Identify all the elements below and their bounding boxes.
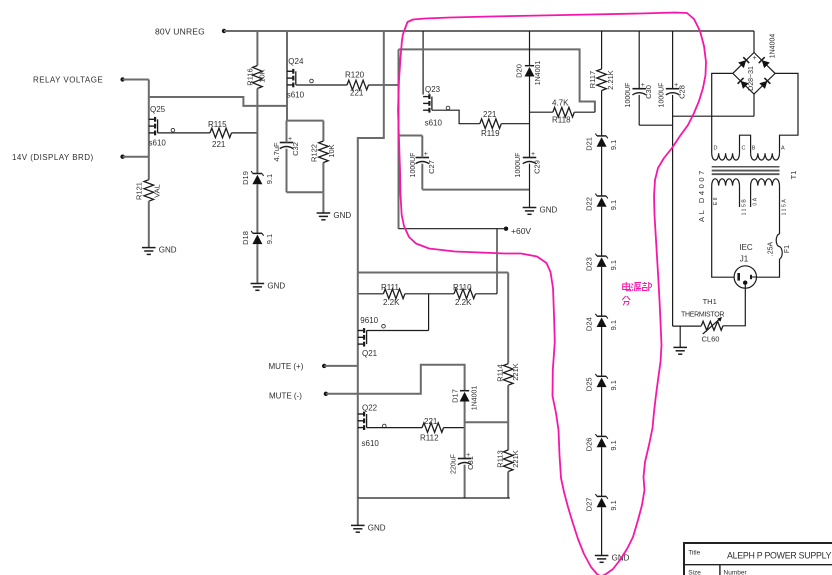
svg-text:221: 221 bbox=[424, 417, 438, 426]
svg-text:9.1: 9.1 bbox=[609, 140, 618, 150]
svg-text:GND: GND bbox=[540, 206, 558, 215]
svg-text:C28: C28 bbox=[678, 85, 687, 99]
node MUTE plus terminal bbox=[269, 362, 327, 371]
wire R116 to D19 bbox=[256, 89, 258, 174]
wire D19 to D18 bbox=[256, 184, 258, 233]
svg-text:MUTE (+): MUTE (+) bbox=[269, 362, 304, 371]
svg-text:+: + bbox=[424, 151, 428, 158]
transistor Q24 bbox=[287, 57, 314, 100]
connector J1 IEC inlet bbox=[734, 243, 756, 288]
diode D17 1N4001 bbox=[451, 386, 479, 411]
wire mute bus bbox=[358, 272, 508, 274]
svg-text:s610: s610 bbox=[287, 91, 305, 100]
svg-text:R112: R112 bbox=[420, 434, 439, 443]
diode D24 9.1 bbox=[585, 314, 619, 331]
wire R117 to D21 bbox=[601, 91, 603, 136]
svg-text:9.1: 9.1 bbox=[609, 320, 618, 330]
svg-text:C31: C31 bbox=[466, 456, 475, 470]
diode D25 9.1 bbox=[585, 374, 619, 391]
transistor Q22 bbox=[358, 404, 386, 449]
svg-text:C29: C29 bbox=[533, 160, 542, 174]
svg-text:GND: GND bbox=[333, 211, 351, 220]
transistor Q21 bbox=[358, 316, 386, 358]
svg-text:R115: R115 bbox=[208, 120, 227, 129]
wire bridge right to transformer A bbox=[775, 73, 798, 153]
svg-text:9.1: 9.1 bbox=[609, 500, 618, 510]
wire bridge left to transformer D bbox=[712, 73, 733, 153]
ground below D18 bbox=[251, 282, 286, 291]
wire R121 to ground bbox=[148, 201, 150, 247]
svg-text:T1: T1 bbox=[789, 171, 798, 180]
svg-text:D25: D25 bbox=[585, 377, 594, 391]
svg-text:R120: R120 bbox=[345, 71, 365, 80]
wire D20 C29 rail bbox=[529, 31, 531, 158]
wire mute minus to D17 bbox=[326, 365, 465, 394]
resistor R119 221 bbox=[480, 110, 502, 138]
svg-text:C32: C32 bbox=[291, 142, 300, 156]
resistor R122 10K bbox=[310, 141, 337, 163]
wire D21 to D22 bbox=[601, 147, 603, 196]
svg-text:221K: 221K bbox=[511, 450, 520, 468]
svg-text:0A: 0A bbox=[753, 196, 759, 205]
svg-text:AL D4007: AL D4007 bbox=[697, 168, 706, 222]
svg-text:D28~31: D28~31 bbox=[748, 66, 755, 91]
wire R111 R110 junction down to Q21 bbox=[428, 294, 430, 331]
diode D22 9.1 bbox=[585, 194, 619, 211]
svg-text:D24: D24 bbox=[585, 317, 594, 331]
capacitor C31 220uF bbox=[451, 452, 476, 474]
resistor R121 VAL bbox=[135, 180, 162, 202]
resistor R111 2.2K bbox=[381, 283, 405, 307]
thermistor TH1 CL60 bbox=[681, 297, 724, 344]
svg-text:9.1: 9.1 bbox=[265, 234, 274, 244]
diode D23 9.1 bbox=[585, 254, 619, 271]
wire R114 rail bbox=[507, 273, 509, 364]
rectifier bridge D28-31 1N4004 bbox=[733, 34, 777, 94]
svg-text:14V (DISPLAY BRD): 14V (DISPLAY BRD) bbox=[12, 153, 94, 162]
title block bbox=[684, 543, 832, 575]
wire R112 to D17 rail bbox=[444, 427, 465, 429]
resistor R120 221 bbox=[345, 71, 369, 98]
svg-text:1N4001: 1N4001 bbox=[472, 386, 479, 411]
wire +60V line bbox=[399, 228, 507, 230]
svg-text:D18: D18 bbox=[241, 231, 250, 245]
ground bottom left bbox=[351, 523, 386, 532]
diode D26 9.1 bbox=[585, 434, 619, 451]
svg-text:4.7uF: 4.7uF bbox=[272, 142, 281, 162]
wire R118 leads bbox=[530, 111, 595, 113]
wire bottom bus bbox=[358, 497, 510, 499]
resistor R110 2.2K bbox=[453, 283, 476, 307]
wire Q25 source to R115 bbox=[158, 132, 210, 134]
capacitor C29 1000UF bbox=[515, 151, 542, 177]
wire C30 to C28 connector bbox=[639, 124, 672, 126]
resistor R118 4.7K bbox=[552, 99, 574, 125]
svg-text:1000UF: 1000UF bbox=[659, 83, 666, 108]
wire C30 rail bbox=[638, 31, 640, 125]
svg-text:MUTE (-): MUTE (-) bbox=[269, 392, 302, 401]
svg-text:115A: 115A bbox=[782, 198, 788, 216]
node RELAY VOLTAGE terminal bbox=[33, 76, 125, 85]
wire rail from bus to mute section bbox=[358, 31, 384, 273]
wire bottom bus to ground bbox=[357, 498, 359, 525]
transformer labels bbox=[697, 168, 798, 222]
svg-text:+: + bbox=[288, 136, 292, 143]
wire D23 to D24 bbox=[601, 267, 603, 316]
wire box to ground bbox=[322, 192, 324, 213]
wire +60V to R110 bbox=[496, 229, 498, 294]
diode D18 9.1 bbox=[241, 231, 274, 245]
wire transformer C B tie bbox=[740, 135, 751, 153]
wire R119 to C29 rail bbox=[501, 123, 529, 125]
svg-text:1000UF: 1000UF bbox=[515, 153, 522, 178]
wire Q25 gate line bbox=[149, 97, 287, 106]
svg-text:Q25: Q25 bbox=[150, 105, 166, 114]
svg-text:s610: s610 bbox=[149, 139, 167, 148]
diode D27 9.1 bbox=[585, 494, 619, 511]
svg-text:TH1: TH1 bbox=[703, 297, 717, 306]
svg-text:2.2K: 2.2K bbox=[455, 298, 472, 307]
svg-text:IEC: IEC bbox=[739, 243, 753, 252]
svg-text:C30: C30 bbox=[644, 85, 653, 99]
wire R114 to junction bbox=[507, 385, 509, 450]
svg-text:D22: D22 bbox=[585, 197, 594, 211]
svg-text:9610: 9610 bbox=[360, 316, 378, 325]
svg-text:221: 221 bbox=[483, 110, 497, 119]
wire gate drive line from R120 to R118 bbox=[399, 49, 595, 112]
svg-text:Title: Title bbox=[688, 550, 700, 557]
wire ground stem mains bbox=[679, 326, 681, 347]
svg-text:R121: R121 bbox=[135, 182, 144, 200]
svg-text:Size: Size bbox=[688, 570, 701, 575]
wire transformer to IEC left bbox=[712, 186, 734, 278]
transformer T1 core bbox=[712, 167, 780, 174]
annotation chinese text power supply section bbox=[622, 282, 652, 305]
wire +60V rail bbox=[398, 49, 400, 228]
svg-text:R116: R116 bbox=[246, 68, 255, 85]
svg-text:R118: R118 bbox=[552, 116, 571, 125]
node +60V bbox=[504, 226, 532, 236]
svg-text:R113: R113 bbox=[496, 450, 505, 467]
wire C31 to bottom bus bbox=[464, 465, 466, 498]
wire R111 R110 row bbox=[358, 293, 497, 295]
wire relay voltage to Q25 rail bbox=[123, 79, 149, 81]
svg-text:THERMISTOR: THERMISTOR bbox=[681, 311, 724, 318]
svg-text:R110: R110 bbox=[453, 283, 472, 292]
wire D17 junction to R114 rail bbox=[465, 421, 509, 423]
wire R113 to bottom bus bbox=[507, 472, 509, 499]
svg-text:D26: D26 bbox=[585, 438, 594, 452]
wire R116 rail top bbox=[256, 31, 258, 66]
node 14V DISPLAY BRD terminal bbox=[12, 153, 125, 162]
wire C29 to ground bbox=[529, 164, 531, 208]
wire fuse to IEC right bbox=[757, 259, 780, 277]
wire D26 to D27 bbox=[601, 447, 603, 496]
ground below zener chain bbox=[595, 554, 630, 563]
wire D27 to ground bbox=[601, 507, 603, 555]
svg-text:1000UF: 1000UF bbox=[410, 153, 417, 178]
svg-text:R122: R122 bbox=[310, 144, 319, 162]
diode D21 9.1 bbox=[585, 134, 619, 151]
wire Q22 source to R112 bbox=[367, 427, 423, 429]
wire R117 rail bbox=[601, 31, 603, 69]
wire D17 rail down bbox=[464, 402, 466, 459]
wire C28 rail to thermistor bbox=[673, 325, 702, 327]
wire Q24 rail bbox=[286, 31, 288, 121]
resistor R112 221 bbox=[420, 417, 444, 443]
svg-text:ALEPH P POWER SUPPLY: ALEPH P POWER SUPPLY bbox=[727, 551, 832, 561]
capacitor C30 1000UF bbox=[625, 82, 653, 107]
capacitor C32 4.7uF bbox=[272, 136, 300, 162]
node 80V UNREG terminal bbox=[155, 27, 226, 37]
svg-text:R114: R114 bbox=[496, 364, 505, 381]
wire Q23 source to R119 bbox=[432, 110, 480, 124]
svg-text:4.7K: 4.7K bbox=[552, 99, 569, 108]
svg-text:221K: 221K bbox=[511, 363, 520, 381]
svg-text:+: + bbox=[752, 55, 756, 62]
svg-text:115B: 115B bbox=[742, 198, 748, 216]
svg-text:9.1: 9.1 bbox=[265, 174, 274, 184]
svg-text:D23: D23 bbox=[585, 257, 594, 271]
svg-text:Q22: Q22 bbox=[362, 404, 378, 413]
svg-text:9.1: 9.1 bbox=[609, 440, 618, 450]
svg-text:10K: 10K bbox=[258, 69, 267, 82]
svg-text:C27: C27 bbox=[427, 160, 436, 174]
wire D18 to ground bbox=[256, 244, 258, 283]
svg-text:2.2K: 2.2K bbox=[383, 298, 400, 307]
fuse F1 .25A bbox=[768, 234, 792, 259]
svg-text:D17: D17 bbox=[451, 389, 460, 403]
wire C27 rail bbox=[421, 136, 423, 190]
svg-text:R111: R111 bbox=[381, 283, 399, 292]
capacitor C27 1000UF bbox=[410, 151, 436, 177]
diode D20 1N4001 bbox=[515, 61, 543, 86]
wire D25 to D26 bbox=[601, 387, 603, 436]
wire transformer stubs bbox=[740, 186, 751, 207]
svg-text:GND: GND bbox=[368, 523, 386, 532]
svg-text:1N4001: 1N4001 bbox=[535, 61, 542, 86]
svg-text:80V UNREG: 80V UNREG bbox=[155, 27, 205, 37]
wire left rail Q21 Q22 bbox=[357, 273, 359, 499]
ground below R122 bbox=[317, 211, 352, 220]
transistor Q25 bbox=[149, 105, 175, 148]
svg-text:Q23: Q23 bbox=[425, 85, 441, 94]
svg-text:D27: D27 bbox=[585, 498, 594, 512]
svg-text:Q24: Q24 bbox=[288, 57, 304, 66]
wire R120 to gate node bbox=[369, 84, 399, 86]
svg-text:10K: 10K bbox=[327, 144, 336, 157]
svg-text:CL60: CL60 bbox=[702, 335, 720, 344]
svg-text:B: B bbox=[752, 146, 756, 152]
svg-text:D19: D19 bbox=[241, 171, 250, 185]
svg-text:R117: R117 bbox=[588, 71, 597, 88]
svg-text:9.1: 9.1 bbox=[609, 380, 618, 390]
ground mains side bbox=[673, 347, 687, 354]
svg-text:R119: R119 bbox=[481, 129, 500, 138]
svg-text:9.1: 9.1 bbox=[609, 200, 618, 210]
svg-text:1000UF: 1000UF bbox=[625, 83, 632, 108]
ground below R121 bbox=[142, 246, 177, 255]
svg-text:221: 221 bbox=[212, 140, 226, 149]
diode D19 9.1 bbox=[241, 171, 274, 185]
svg-text:+: + bbox=[531, 151, 535, 158]
svg-text:D20: D20 bbox=[515, 64, 524, 78]
svg-text:VAL: VAL bbox=[153, 184, 162, 198]
transformer T1 secondary windings bbox=[712, 179, 788, 216]
svg-text:+60V: +60V bbox=[511, 226, 531, 236]
wire regulator box bottom bbox=[422, 189, 529, 191]
wire bus to bridge top bbox=[753, 31, 755, 53]
wire Q23 drain rail bbox=[422, 31, 424, 95]
wire transformer to fuse bbox=[779, 186, 781, 234]
svg-text:1N4004: 1N4004 bbox=[770, 34, 777, 59]
svg-text:J1: J1 bbox=[740, 255, 749, 264]
wire Q21 source to junction bbox=[367, 330, 429, 332]
wire Q24 source to R120 bbox=[296, 84, 347, 86]
resistor R117 2.21K bbox=[588, 69, 615, 91]
svg-text:D21: D21 bbox=[585, 137, 594, 151]
capacitor C28 1000UF bbox=[659, 82, 687, 107]
wire bridge bottom to minus line bbox=[753, 94, 755, 116]
svg-text:Q21: Q21 bbox=[362, 349, 378, 358]
ground below C29 bbox=[523, 206, 558, 215]
svg-text:D: D bbox=[714, 146, 718, 152]
svg-text:9.1: 9.1 bbox=[609, 260, 618, 270]
wire 14V to Q25 rail bbox=[123, 156, 149, 158]
svg-text:Number: Number bbox=[724, 570, 748, 575]
svg-text:220uF: 220uF bbox=[451, 454, 458, 474]
wire bridge minus line bbox=[673, 115, 754, 117]
wire C32 R122 box bbox=[287, 121, 324, 193]
svg-text:A: A bbox=[781, 146, 785, 152]
resistor R113 221K bbox=[496, 450, 521, 472]
svg-text:GND: GND bbox=[267, 282, 285, 291]
svg-text:F1: F1 bbox=[784, 245, 791, 253]
svg-text:221: 221 bbox=[350, 89, 364, 98]
annotation pink highlight loop bbox=[398, 13, 706, 575]
wire R115 to R116 rail bbox=[232, 132, 258, 134]
node MUTE minus terminal bbox=[269, 392, 328, 401]
wire 80V UNREG top bus bbox=[224, 30, 754, 32]
svg-text:C: C bbox=[742, 146, 746, 152]
resistor R115 221 bbox=[208, 120, 232, 149]
transistor Q23 bbox=[423, 85, 450, 128]
svg-text:RELAY VOLTAGE: RELAY VOLTAGE bbox=[33, 76, 103, 85]
svg-text:E8: E8 bbox=[713, 196, 719, 205]
resistor R114 221K bbox=[496, 363, 521, 385]
wire IEC ground pin down bbox=[723, 285, 745, 326]
wire D24 to D25 bbox=[601, 327, 603, 376]
svg-text:s610: s610 bbox=[425, 119, 443, 128]
svg-text:.25A: .25A bbox=[768, 241, 775, 256]
resistor R116 10K bbox=[246, 66, 267, 89]
transformer T1 primary windings bbox=[712, 146, 785, 161]
wire to C27 top bbox=[399, 135, 423, 137]
wire Q25 rail bbox=[148, 80, 150, 180]
svg-text:GND: GND bbox=[159, 246, 177, 255]
svg-text:s610: s610 bbox=[362, 439, 380, 448]
wire C28 rail bbox=[672, 31, 674, 326]
wire mute plus bbox=[324, 365, 358, 367]
wire D22 to D23 bbox=[601, 207, 603, 256]
svg-text:2.21K: 2.21K bbox=[606, 70, 615, 90]
